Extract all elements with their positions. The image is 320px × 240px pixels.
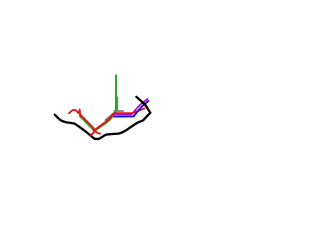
black trajectory — [55, 97, 151, 139]
magenta trajectory — [113, 99, 148, 115]
gray stub horizontal — [114, 110, 123, 112]
blue trajectory — [114, 101, 148, 117]
red squiggle + left branch + hook — [69, 110, 100, 134]
gray line diagonal+vertical — [105, 97, 117, 120]
green trajectory — [80, 75, 116, 131]
red stub — [91, 131, 96, 135]
red right branch + horizontal + diagonal — [94, 108, 145, 130]
